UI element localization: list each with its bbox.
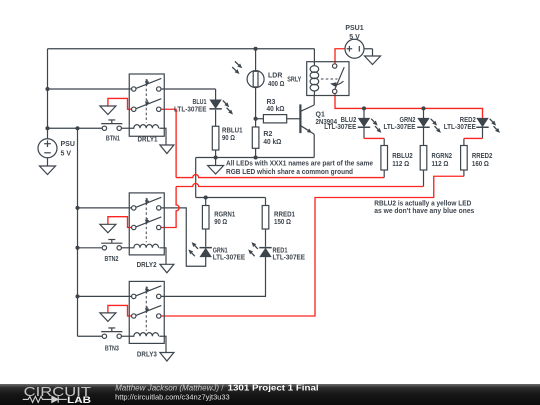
wire [161,257,266,297]
wire [255,148,257,157]
wire [121,127,129,129]
wire [205,229,207,247]
svg-text:BTN2: BTN2 [105,256,119,263]
wire [48,48,315,50]
svg-text:PSU: PSU [61,141,75,148]
photoresistor LDR [232,61,285,88]
resistor RGRN2 [420,146,452,171]
wire [78,247,103,249]
wire [78,335,103,337]
wire [195,158,197,198]
wire [215,110,217,126]
junction [75,126,79,130]
svg-text:90 Ω: 90 Ω [214,219,227,226]
svg-text:LTL-307EE: LTL-307EE [324,124,356,131]
LED BLU1 [174,99,233,115]
junction [421,106,425,110]
wire [423,170,425,187]
wire (highlighted) [335,49,345,64]
ground [208,158,224,175]
svg-text:BTN3: BTN3 [105,346,119,353]
svg-text:LTL-307EE: LTL-307EE [213,255,246,262]
svg-text:All LEDs with XXX1 names are p: All LEDs with XXX1 names are part of the… [226,160,373,167]
svg-text:RRED1: RRED1 [274,212,295,219]
wire [463,138,465,145]
resistor RRED2 [461,146,493,171]
relay DRLY3 [129,281,166,358]
junction [254,47,258,51]
wire [383,170,385,178]
svg-text:LDR: LDR [268,73,282,80]
junction [45,87,49,91]
svg-text:RGRN1: RGRN1 [214,212,235,219]
svg-text:40 kΩ: 40 kΩ [263,139,281,146]
wire [255,49,257,71]
voltage source PSU1 [345,25,364,58]
resistor R2 [252,127,281,148]
wire (highlighted) [108,98,132,109]
svg-text:RBLU1: RBLU1 [222,128,243,135]
svg-text:90 Ω: 90 Ω [222,135,235,142]
LED RED1 [248,242,305,262]
svg-text:R2: R2 [263,131,272,138]
ground [160,264,174,273]
wire [423,110,425,118]
ground [365,56,381,65]
svg-text:R3: R3 [267,99,276,106]
wire [78,207,132,209]
svg-text:DRLY1: DRLY1 [138,136,158,143]
pushbutton BTN3 [101,328,122,353]
wire [256,118,264,120]
ground [100,224,116,233]
LED GRN1 [188,242,245,262]
wire (highlighted) [161,176,464,316]
junction [204,195,208,199]
wire (highlighted) [364,137,384,139]
wire [215,150,217,158]
wire [78,295,132,297]
svg-text:40 kΩ: 40 kΩ [267,106,285,113]
note: common ground [226,160,373,176]
svg-text:112 Ω: 112 Ω [392,161,409,168]
svg-text:PSU1: PSU1 [345,25,363,32]
pushbutton BTN1 [101,120,122,143]
wire [383,138,385,145]
svg-text:LTL-307EE: LTL-307EE [174,106,207,113]
ground [100,106,116,115]
wire [121,335,129,337]
svg-text:LAB: LAB [67,395,91,405]
wire [215,89,217,100]
svg-text:5 V: 5 V [349,34,360,41]
svg-text:RGB LED which share a common g: RGB LED which share a common ground [226,169,353,176]
wire [313,49,315,62]
wire [205,198,207,206]
svg-text:http://circuitlab.com/c34nz7yj: http://circuitlab.com/c34nz7yjt3u33 [115,392,230,401]
resistor R3 [263,99,286,123]
CircuitLab logo [23,384,91,405]
relay DRLY2 [129,193,166,269]
svg-text:RBLU2 is actually a yellow LED: RBLU2 is actually a yellow LED [374,200,471,207]
wire (highlighted) [176,175,384,178]
wire (highlighted) [176,184,423,187]
svg-text:400 Ω: 400 Ω [268,81,285,88]
svg-text:BTN1: BTN1 [106,136,120,143]
svg-text:Q1: Q1 [316,112,325,119]
wire [77,128,79,336]
svg-text:LTL-307EE: LTL-307EE [444,124,476,131]
wire [48,88,132,90]
junction [75,206,79,210]
wire [161,88,216,90]
junction [75,294,79,298]
ground [160,145,174,154]
footer text [115,383,319,401]
junction [362,106,366,110]
svg-text:RBLU2: RBLU2 [392,153,413,160]
svg-text:GRN1: GRN1 [213,248,228,255]
wire [482,127,484,138]
wire (highlighted) [161,109,176,177]
svg-text:5 V: 5 V [61,150,72,157]
footer bar background [0,384,540,405]
wire (highlighted) [108,305,132,316]
svg-text:RGRN2: RGRN2 [432,153,453,160]
wire (highlighted) [335,94,483,119]
wire [121,247,129,249]
svg-text:RED1: RED1 [273,248,288,255]
junction [75,246,79,250]
relay DRLY1 [129,74,166,145]
junction [254,155,258,159]
wire [364,49,373,56]
LED BLU2 [324,117,381,133]
wire [423,127,425,145]
wire [287,118,300,120]
wire [161,208,206,266]
wire [363,127,365,138]
resistor RBLU1 [212,126,242,150]
wire (highlighted) [108,217,132,228]
wire [196,157,315,159]
junction [254,117,258,121]
wire [463,170,465,176]
pushbutton BTN2 [101,240,122,264]
svg-text:SRLY: SRLY [287,76,301,83]
wire [265,229,267,247]
note: RBLU2 yellow [374,200,474,215]
svg-text:150 Ω: 150 Ω [274,219,291,226]
svg-text:Matthew Jackson (MatthewJ): Matthew Jackson (MatthewJ) [115,383,219,392]
voltage source PSU [38,139,75,158]
ground [100,313,116,322]
svg-text:112 Ω: 112 Ω [432,161,449,168]
wire [48,127,103,129]
junction [214,155,218,159]
wire [47,49,49,139]
wire [363,110,365,118]
ground [40,158,56,175]
svg-text:as we don't have any blue ones: as we don't have any blue ones [374,208,474,215]
LED RED2 [444,117,500,133]
svg-text:RRED2: RRED2 [472,153,493,160]
LED GRN2 [384,117,441,133]
svg-text:BLU1: BLU1 [193,99,207,106]
svg-text:/: / [221,383,224,392]
svg-text:1301 Project 1 Final: 1301 Project 1 Final [228,383,319,392]
wire (highlighted) [161,187,179,228]
junction [45,126,49,130]
relay SRLY [287,62,349,96]
resistor RBLU2 [381,146,413,171]
wire (highlighted) [464,137,483,139]
svg-text:DRLY3: DRLY3 [137,351,157,358]
transistor Q1 [300,96,337,158]
svg-text:LTL-307EE: LTL-307EE [273,255,306,262]
ground [160,353,174,362]
wire [196,197,266,199]
svg-text:DRLY2: DRLY2 [137,262,157,269]
svg-text:160 Ω: 160 Ω [472,161,489,168]
svg-text:LTL-307EE: LTL-307EE [384,124,416,131]
resistor RRED1 [262,206,295,230]
resistor RGRN1 [202,206,235,230]
wire [265,198,267,206]
wire [255,88,257,127]
